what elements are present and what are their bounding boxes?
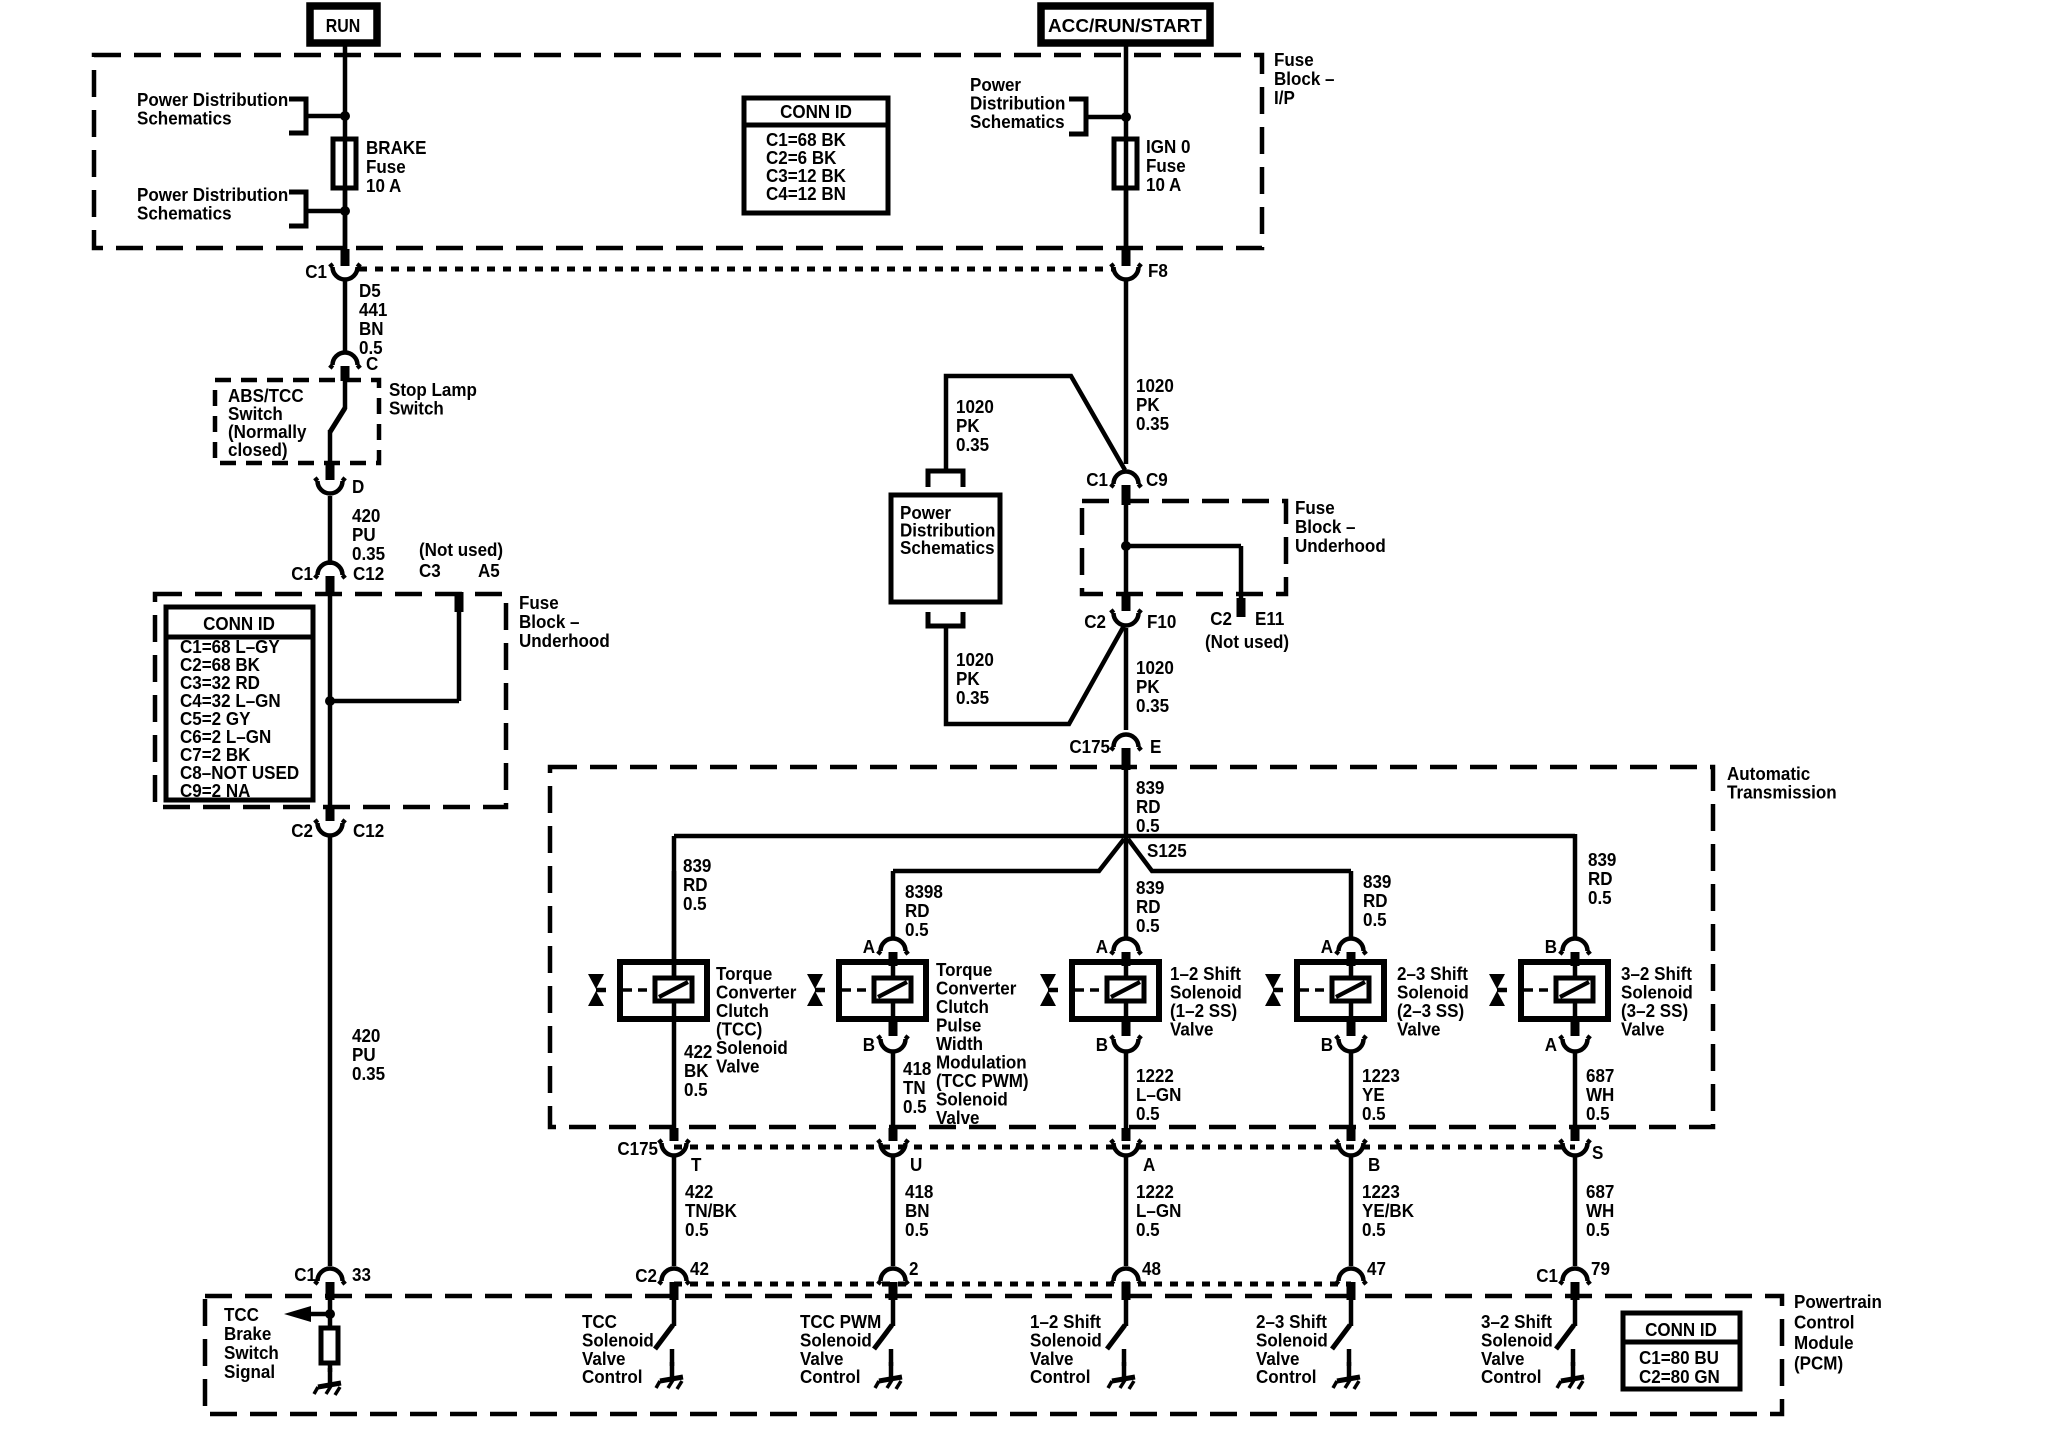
svg-text:33: 33 [352,1264,371,1285]
terminal (top) of power distribution schematics box [928,471,963,487]
wire: RUN feed down through BRAKE fuse [343,43,348,249]
svg-text:418: 418 [903,1058,931,1079]
svg-text:Underhood: Underhood [519,630,610,651]
svg-text:C1: C1 [294,1264,316,1285]
svg-text:420: 420 [352,505,380,526]
connector C (stop lamp switch) [330,353,379,382]
wire 687 WH (3-2 Shift to C175) [1575,1051,1614,1128]
svg-text:47: 47 [1367,1258,1386,1279]
connector C175 terminal T [617,1128,701,1175]
svg-text:C12: C12 [353,820,384,841]
PCM output driver switch (2-3 Shift) [1332,1300,1351,1366]
svg-text:839: 839 [1136,777,1164,798]
svg-text:YE: YE [1362,1084,1385,1105]
svg-text:0.5: 0.5 [1586,1219,1610,1240]
wire: bus drop to 3-2 shift solenoid [1573,834,1578,940]
PCM output driver switch (TCC PWM) [874,1300,893,1366]
svg-text:Block –: Block – [519,611,580,632]
node: junction to C3/A5 stub [325,607,459,706]
svg-text:0.35: 0.35 [352,543,385,564]
connector PCM pin 79 [1536,1258,1610,1300]
label: TCC Brake Switch Signal [224,1304,279,1382]
svg-text:RD: RD [1588,868,1613,889]
svg-text:48: 48 [1142,1258,1161,1279]
svg-text:C1: C1 [1086,469,1108,490]
dotted harness line at C175 (transmission pass-through) [674,1145,1575,1150]
svg-text:0.5: 0.5 [905,1219,929,1240]
svg-text:C9=2 NA: C9=2 NA [180,780,251,801]
ground (PCM brake switch signal) [314,1368,341,1395]
svg-text:Block –: Block – [1274,68,1335,89]
svg-text:closed): closed) [228,439,288,460]
CONN ID table (Fuse Block - I/P) [744,98,888,213]
svg-text:C12: C12 [353,563,384,584]
svg-text:F8: F8 [1148,260,1168,281]
node: PCM brake signal junction [325,1309,335,1319]
svg-text:C1: C1 [1536,1265,1558,1286]
stub E11 (not used terminal) [1205,598,1289,652]
svg-text:CONN ID: CONN ID [203,613,275,634]
connector C1 (fuse block I/P, left) [305,249,360,282]
svg-text:0.5: 0.5 [1136,815,1160,836]
wire 687 WH (C175 S to PCM) [1575,1156,1614,1266]
signal arrow (TCC brake switch signal) [284,1306,330,1322]
wire 1222 L–GN (1-2 Shift to C175) [1126,1051,1181,1128]
connector F8 (fuse block I/P, right) [1111,249,1168,281]
svg-text:10 A: 10 A [366,175,401,196]
svg-text:C9: C9 [1146,469,1168,490]
svg-text:RD: RD [1136,796,1161,817]
wire 1222 L–GN (C175 A to PCM) [1126,1156,1181,1266]
wire into PCM internal resistor [328,1300,333,1328]
connector C175 terminal A [1111,1128,1156,1175]
svg-text:S: S [1592,1142,1603,1163]
svg-text:A: A [1321,936,1333,957]
svg-text:Fuse: Fuse [1274,49,1314,70]
svg-text:Transmission: Transmission [1727,782,1837,803]
svg-text:0.5: 0.5 [1363,909,1387,930]
svg-text:D5: D5 [359,280,381,301]
svg-text:2: 2 [909,1258,919,1279]
svg-text:0.5: 0.5 [685,1219,709,1240]
svg-text:1020: 1020 [956,649,994,670]
connector C175 terminal S [1560,1128,1604,1163]
connector PCM pin 2 [878,1258,919,1300]
connector B (1-2 Shift solenoid bottom) [1096,1001,1141,1055]
svg-text:RD: RD [905,900,930,921]
connector PCM pin 47 [1336,1258,1386,1300]
wire inside fuse block underhood (left) [328,596,333,807]
splice S125 diagonal to TCC PWM branch [893,839,1124,871]
svg-text:Schematics: Schematics [137,108,232,129]
svg-text:I/P: I/P [1274,87,1295,108]
bracket: Power Distribution Schematics (top right) [970,74,1122,134]
connector B (2-3 Shift solenoid bottom) [1321,1001,1366,1055]
svg-text:0.5: 0.5 [1136,1103,1160,1124]
svg-text:Valve: Valve [1397,1019,1441,1040]
svg-text:C2: C2 [1084,611,1106,632]
ground (PCM TCC driver) [656,1362,683,1389]
label: 3-2 Shift Solenoid Valve Control [1481,1311,1553,1387]
svg-text:1020: 1020 [1136,657,1174,678]
wire feed to TCC solenoid [674,836,711,978]
wire 839/branch feed to 3-2 Shift solenoid connector B [1588,849,1616,908]
svg-text:PU: PU [352,1044,376,1065]
svg-text:420: 420 [352,1025,380,1046]
PCM output driver switch (3-2 Shift) [1556,1300,1575,1366]
svg-text:839: 839 [1363,871,1391,892]
Automatic Transmission dashed box [550,763,1837,1127]
svg-text:42: 42 [690,1258,709,1279]
wire 839 RD 0.5 (E to splice S125) [1126,770,1164,836]
svg-text:PK: PK [956,668,980,689]
svg-text:RD: RD [683,874,708,895]
Power Distribution Schematics box [891,495,1000,602]
svg-text:E: E [1150,736,1161,757]
stop lamp switch contact and blade [330,380,345,463]
svg-text:PK: PK [1136,394,1160,415]
svg-text:IGN 0: IGN 0 [1146,136,1191,157]
svg-text:BN: BN [905,1200,930,1221]
svg-text:(Not used): (Not used) [1205,631,1289,652]
svg-text:B: B [1368,1154,1380,1175]
svg-text:Control: Control [1794,1312,1854,1333]
connector D (stop lamp switch out) [315,463,365,497]
svg-text:Valve: Valve [716,1056,760,1077]
wire 1020 PK 0.35 (F10 to C175/E) [1126,628,1174,730]
svg-text:0.5: 0.5 [1586,1103,1610,1124]
svg-text:C1: C1 [291,563,313,584]
splice S125 diagonal to 2-3 shift branch [1128,839,1351,871]
svg-text:422: 422 [684,1041,712,1062]
svg-text:TN: TN [903,1077,926,1098]
svg-text:Control: Control [1256,1367,1316,1388]
connector B (TCC PWM solenoid bottom) [863,1001,908,1055]
svg-text:0.5: 0.5 [1136,915,1160,936]
svg-text:Fuse: Fuse [1295,497,1335,518]
svg-text:Valve: Valve [936,1107,980,1128]
svg-text:WH: WH [1586,1200,1614,1221]
svg-text:Control: Control [1030,1367,1090,1388]
svg-text:F10: F10 [1147,611,1176,632]
label: 1-2 Shift Solenoid Valve Control [1030,1311,1102,1387]
svg-text:418: 418 [905,1181,933,1202]
wire inside fuse block underhood (right) [1124,503,1129,594]
svg-text:0.5: 0.5 [1362,1219,1386,1240]
stub C3/A5 (not used terminal) [455,592,464,612]
solenoid valve TCC PWM: case, coil and valve symbol [807,953,1029,1128]
svg-text:0.5: 0.5 [683,893,707,914]
svg-text:E11: E11 [1255,608,1284,629]
connector pair C1/33 (PCM left) [294,1264,371,1300]
svg-text:0.5: 0.5 [1362,1103,1386,1124]
svg-text:CONN ID: CONN ID [780,101,852,122]
PCM output driver switch (TCC) [655,1300,674,1366]
svg-text:C4=12 BN: C4=12 BN [766,183,846,204]
wire 839/branch feed to TCC PWM solenoid connector A [893,871,943,940]
bracket: Power Distribution Schematics (upper left) [137,89,341,133]
svg-text:Fuse: Fuse [1146,155,1186,176]
connector pair C175/E (into automatic transmission) [1069,735,1161,771]
svg-text:A: A [1143,1154,1155,1175]
svg-text:Control: Control [582,1367,642,1388]
label (Not used) C3 A5 [419,539,503,581]
svg-text:1222: 1222 [1136,1065,1174,1086]
svg-text:RD: RD [1363,890,1388,911]
svg-text:ACC/RUN/START: ACC/RUN/START [1048,15,1202,36]
fuse BRAKE 10 A [333,137,427,196]
svg-text:0.35: 0.35 [1136,695,1169,716]
svg-text:CONN ID: CONN ID [1645,1319,1717,1340]
ACC/RUN/START hot bar [1041,6,1210,43]
connector C175 terminal U [878,1128,922,1175]
svg-text:1020: 1020 [956,396,994,417]
Fuse Block - I/P dashed box [94,49,1335,248]
svg-text:79: 79 [1591,1258,1610,1279]
connector PCM pin 48 [1111,1258,1161,1300]
svg-text:Brake: Brake [224,1323,271,1344]
svg-text:Powertrain: Powertrain [1794,1291,1882,1312]
svg-text:C2: C2 [635,1265,657,1286]
wire 1223 YE/BK (C175 B to PCM) [1351,1156,1414,1266]
wire branch to power distribution (upper) [946,376,1125,470]
ground (PCM 3-2 Shift driver) [1557,1362,1584,1389]
label: TCC PWM Solenoid Valve Control [800,1311,881,1387]
svg-text:839: 839 [1588,849,1616,870]
wire 418 BN (C175 U to PCM) [893,1156,933,1266]
svg-text:C175: C175 [1069,736,1110,757]
svg-text:0.35: 0.35 [352,1063,385,1084]
svg-text:0.5: 0.5 [1136,1219,1160,1240]
svg-text:PK: PK [1136,676,1160,697]
svg-text:BN: BN [359,318,384,339]
wire D5 441 BN 0.5 (C1 to stop lamp switch) [345,278,387,358]
svg-text:1020: 1020 [1136,375,1174,396]
ground (PCM 1-2 Shift driver) [1108,1362,1135,1389]
svg-text:0.5: 0.5 [905,919,929,940]
svg-text:Control: Control [1481,1367,1541,1388]
label: TCC Solenoid Valve Control [582,1311,654,1387]
svg-text:B: B [1321,1034,1333,1055]
CONN ID table (fuse block underhood) [166,607,313,801]
connector A (3-2 Shift solenoid bottom) [1545,1001,1590,1055]
CONN ID table (PCM) [1623,1313,1740,1389]
PCM output driver switch (1-2 Shift) [1107,1300,1126,1366]
Fuse Block - Underhood dashed box (left) [155,592,610,807]
wire: BRAKE fuse to fuse block edge [343,188,348,249]
svg-text:D: D [352,476,364,497]
svg-text:PK: PK [956,415,980,436]
solenoid valve 1-2 Shift: case, coil and valve symbol [1040,953,1242,1040]
svg-text:A5: A5 [478,560,500,581]
svg-text:(PCM): (PCM) [1794,1353,1843,1374]
wire: IGN 0 fuse to fuse block edge [1124,188,1129,249]
connector A (2-3 Shift solenoid top) [1321,936,1366,966]
wire resistor to ground [328,1363,333,1372]
svg-text:U: U [910,1154,922,1175]
connector A (1-2 Shift solenoid top) [1096,936,1141,966]
svg-text:C2: C2 [1210,608,1232,629]
solenoid valve 2-3 Shift: case, coil and valve symbol [1265,953,1469,1040]
svg-text:B: B [1545,936,1557,957]
node: junction to power distribution ref (upper left) [340,111,350,121]
connector pair C2/F10 (fuse block underhood right, out) [1084,594,1176,632]
svg-text:A: A [863,936,875,957]
wire 839/branch feed to 1-2 Shift solenoid connector A [1126,836,1164,940]
svg-text:Block –: Block – [1295,516,1356,537]
svg-text:C2=80 GN: C2=80 GN [1639,1366,1720,1387]
svg-text:S125: S125 [1147,840,1187,861]
svg-text:C1=80 BU: C1=80 BU [1639,1347,1719,1368]
svg-text:1223: 1223 [1362,1065,1400,1086]
svg-text:C2: C2 [291,820,313,841]
svg-text:0.5: 0.5 [1588,887,1612,908]
svg-text:839: 839 [683,855,711,876]
splice S125 bus [674,836,1575,861]
bracket: Power Distribution Schematics (lower left) [137,184,341,226]
svg-text:C175: C175 [617,1138,658,1159]
svg-text:441: 441 [359,299,387,320]
svg-text:Schematics: Schematics [137,203,232,224]
ABS/TCC switch dashed box [215,380,379,463]
svg-text:TN/BK: TN/BK [685,1200,737,1221]
wire 839/branch feed to 2-3 Shift solenoid connector A [1351,871,1391,940]
connector pair C1/C9 (fuse block underhood right, in) [1086,469,1168,505]
ground (PCM 2-3 Shift driver) [1333,1362,1360,1389]
svg-text:Fuse: Fuse [366,156,406,177]
svg-text:C1: C1 [305,261,327,282]
svg-text:1222: 1222 [1136,1181,1174,1202]
svg-text:Valve: Valve [1170,1019,1214,1040]
connector C175 terminal B [1336,1128,1381,1175]
svg-text:Switch: Switch [224,1342,279,1363]
connector pair C2/C12 (fuse block underhood out) [291,807,384,841]
node: junction to E11 stub [1121,541,1241,600]
wire 1020 PK 0.35 (F8 to C1/C9) [1126,278,1174,464]
node: junction to power distribution ref (lower left) [340,206,350,216]
svg-text:0.35: 0.35 [956,434,989,455]
terminal (bottom) of power distribution schematics box [928,612,963,626]
solenoid valve TCC: case, coil and valve symbol [588,871,796,1077]
svg-text:C3: C3 [419,560,441,581]
svg-text:A: A [1545,1034,1557,1055]
svg-text:0.5: 0.5 [903,1096,927,1117]
svg-text:Schematics: Schematics [900,537,995,558]
connector PCM pin 42 [635,1258,709,1300]
svg-text:B: B [863,1034,875,1055]
svg-text:T: T [691,1154,702,1175]
Fuse Block - Underhood dashed box (right) [1082,497,1386,594]
svg-text:Underhood: Underhood [1295,535,1386,556]
node: junction to power distribution ref (right) [1121,112,1131,122]
svg-text:YE/BK: YE/BK [1362,1200,1414,1221]
connector pair C1/C12 (fuse block underhood in) [291,563,384,597]
svg-text:RUN: RUN [326,15,360,36]
Powertrain Control Module (PCM) dashed box [205,1291,1882,1414]
solenoid valve 3-2 Shift: case, coil and valve symbol [1489,953,1693,1040]
svg-text:C: C [366,353,378,374]
RUN hot-in-run bar [310,6,377,43]
PCM internal resistor element [321,1328,338,1363]
svg-text:Valve: Valve [1621,1019,1665,1040]
svg-text:TCC: TCC [224,1304,259,1325]
svg-text:1223: 1223 [1362,1181,1400,1202]
svg-text:(Not used): (Not used) [419,539,503,560]
svg-text:Module: Module [1794,1332,1854,1353]
wire 418 TN (TCC PWM to C175) [893,1051,931,1128]
svg-text:Schematics: Schematics [970,111,1065,132]
svg-text:Signal: Signal [224,1361,275,1382]
svg-text:687: 687 [1586,1181,1614,1202]
svg-text:RD: RD [1136,896,1161,917]
svg-text:PU: PU [352,524,376,545]
svg-text:L–GN: L–GN [1136,1200,1181,1221]
svg-text:10 A: 10 A [1146,174,1181,195]
fuse IGN 0 10 A [1114,136,1191,195]
svg-text:8398: 8398 [905,881,943,902]
svg-text:WH: WH [1586,1084,1614,1105]
svg-text:A: A [1096,936,1108,957]
wire branch from power distribution (lower) [946,624,1125,724]
svg-text:BK: BK [684,1060,709,1081]
svg-text:0.35: 0.35 [956,687,989,708]
wire: ACC/RUN/START feed down through IGN 0 fuse [1124,43,1129,249]
svg-text:422: 422 [685,1181,713,1202]
svg-text:687: 687 [1586,1065,1614,1086]
connector B (3-2 Shift solenoid top) [1545,936,1590,966]
wire 422 BK (TCC to C175) [674,1001,712,1128]
svg-text:BRAKE: BRAKE [366,137,427,158]
ground (PCM TCC PWM driver) [875,1362,902,1389]
wire 420 PU 0.35 (C2/C12 down to PCM C1/33) [330,837,385,1266]
wire 1223 YE (2-3 Shift to C175) [1351,1051,1400,1128]
svg-text:0.5: 0.5 [684,1079,708,1100]
svg-text:Fuse: Fuse [519,592,559,613]
dotted harness line at PCM connector [674,1282,1351,1287]
connector A (TCC PWM solenoid top) [863,936,908,966]
label: 2-3 Shift Solenoid Valve Control [1256,1311,1328,1387]
dotted harness line between C1 and F8 [359,267,1112,272]
wire 422 TN/BK (C175 T to PCM) [674,1156,737,1266]
svg-text:Control: Control [800,1367,860,1388]
svg-text:L–GN: L–GN [1136,1084,1181,1105]
label: Stop Lamp Switch [389,379,477,418]
wire 420 PU 0.35 (D to C1/C12) [330,496,385,565]
svg-text:Switch: Switch [389,398,444,419]
svg-text:B: B [1096,1034,1108,1055]
svg-text:0.35: 0.35 [1136,413,1169,434]
svg-text:839: 839 [1136,877,1164,898]
